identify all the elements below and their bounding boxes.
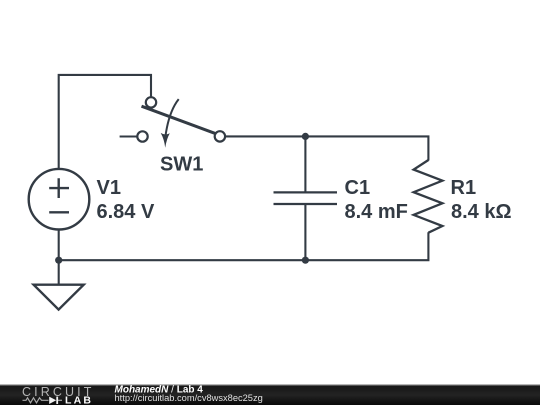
voltage source V1 circle: [29, 169, 90, 230]
V1 plus sign: [49, 178, 69, 198]
svg-text:V1: V1: [97, 177, 121, 199]
capacitor C1 top plate: [274, 191, 338, 193]
logo diode: [49, 397, 56, 404]
resistor R1 zigzag: [414, 160, 443, 233]
switch SW1 left stub wire: [120, 135, 138, 137]
node: top capacitor junction: [302, 133, 309, 140]
ground symbol: [34, 285, 84, 310]
svg-text:C1: C1: [345, 177, 371, 199]
node: bottom left junction: [55, 257, 62, 264]
capacitor C1 bottom plate: [274, 203, 338, 205]
node: bottom capacitor junction: [302, 257, 309, 264]
switch SW1 right terminal: [215, 131, 225, 141]
wire: switch right terminal to resistor top: [225, 136, 428, 160]
wire: capacitor top lead: [304, 136, 306, 192]
wire: bottom rail: [59, 229, 429, 260]
svg-text:6.84 V: 6.84 V: [97, 201, 155, 223]
svg-text:8.4 mF: 8.4 mF: [345, 201, 408, 223]
wire top-left: V1 top to switch: [59, 75, 151, 170]
wire: capacitor bottom lead: [304, 204, 306, 260]
switch SW1 left stub terminal: [137, 131, 147, 141]
svg-text:8.4 kΩ: 8.4 kΩ: [451, 201, 512, 223]
V1 minus sign: [49, 211, 69, 213]
switch SW1 lever: [142, 106, 218, 134]
svg-text:LAB: LAB: [65, 395, 91, 405]
svg-text:http://circuitlab.com/cv8wsx8e: http://circuitlab.com/cv8wsx8ec25zg: [115, 393, 263, 403]
svg-text:R1: R1: [451, 177, 477, 199]
wire: ground stem: [58, 260, 60, 284]
logo zigzag: [23, 398, 49, 403]
switch SW1 action arrow: [165, 99, 179, 138]
switch SW1 top terminal: [146, 97, 156, 107]
svg-text:SW1: SW1: [160, 154, 203, 176]
